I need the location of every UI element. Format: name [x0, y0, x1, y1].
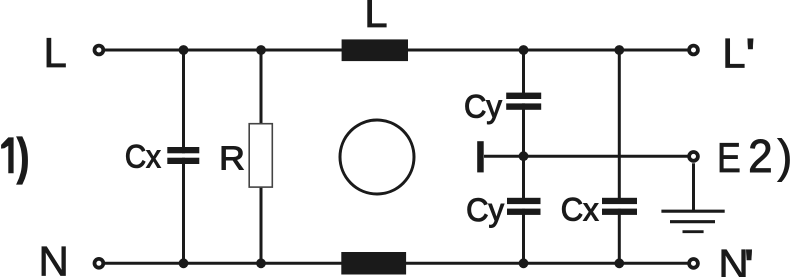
svg-text:L: L — [722, 30, 745, 77]
svg-text:2): 2) — [748, 130, 790, 182]
svg-text:': ' — [744, 240, 754, 277]
svg-text:L: L — [364, 0, 387, 36]
svg-text:': ' — [745, 30, 755, 77]
svg-text:Cy: Cy — [464, 88, 502, 125]
svg-text:L: L — [44, 29, 67, 76]
svg-text:N: N — [39, 238, 69, 277]
svg-text:Cy: Cy — [466, 192, 504, 229]
svg-text:): ) — [17, 129, 29, 184]
svg-text:Cx: Cx — [561, 191, 599, 228]
svg-text:Cx: Cx — [125, 138, 162, 174]
svg-text:R: R — [219, 141, 245, 178]
svg-text:E: E — [717, 135, 741, 181]
